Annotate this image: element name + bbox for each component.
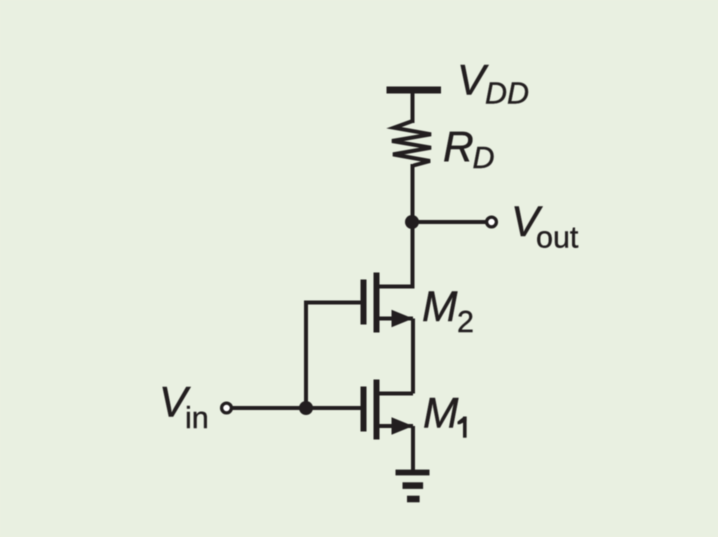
M1 drain wire [378, 392, 413, 396]
label M1 [423, 391, 467, 438]
Vout open terminal [487, 217, 497, 227]
svg-text:2: 2 [457, 305, 474, 339]
M2 source wire [378, 317, 413, 321]
M1 source wire [378, 424, 413, 428]
M2 source arrow [392, 310, 414, 327]
wire VDD bar to resistor [411, 90, 415, 123]
wire node down to M2 drain [411, 222, 415, 287]
node output junction dot [405, 215, 419, 229]
ground [396, 470, 430, 503]
M2 gate bar [361, 280, 367, 325]
label M2 [422, 284, 474, 339]
wire M2 source to M1 drain [411, 319, 415, 394]
M2 drain wire [378, 284, 413, 287]
label Vin [159, 380, 209, 436]
M1 gate bar [361, 387, 367, 432]
wire M2 gate feedback: from M2 gate down to input node [306, 303, 361, 409]
label VDD [457, 58, 529, 111]
Vin open terminal [222, 403, 232, 413]
svg-text:out: out [536, 221, 579, 255]
svg-text:in: in [185, 401, 209, 435]
M2 channel bar [374, 273, 380, 333]
svg-text:R: R [443, 124, 474, 171]
VDD supply bar [387, 87, 442, 94]
label Vout [511, 199, 579, 255]
node input junction dot [299, 401, 313, 415]
svg-text:M: M [423, 391, 459, 438]
transistor M2 [361, 273, 414, 333]
resistor RD [392, 121, 431, 166]
wire M1 source to ground [411, 426, 415, 472]
wire resistor to output node [411, 164, 415, 222]
wire node to Vout terminal [412, 220, 486, 224]
transistor M1 [361, 380, 414, 440]
svg-text:D: D [473, 141, 495, 175]
svg-text:DD: DD [485, 77, 529, 111]
M1 source arrow [392, 417, 414, 434]
svg-text:M: M [422, 284, 458, 331]
M1 channel bar [374, 380, 380, 440]
label RD [443, 124, 495, 175]
wire input node to M1 gate [232, 406, 361, 410]
